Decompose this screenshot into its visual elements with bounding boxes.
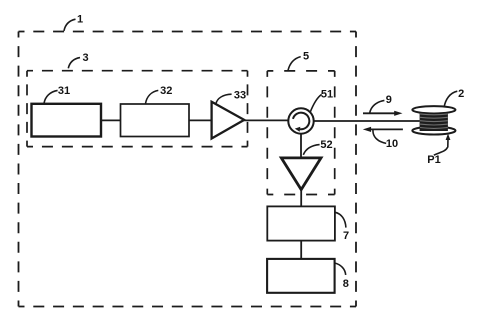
svg-text:31: 31	[58, 85, 70, 97]
svg-text:7: 7	[343, 230, 349, 242]
svg-text:51: 51	[321, 89, 333, 101]
svg-text:2: 2	[458, 88, 464, 100]
svg-text:P1: P1	[427, 154, 440, 166]
svg-text:10: 10	[386, 138, 398, 150]
svg-text:52: 52	[320, 139, 332, 151]
svg-text:3: 3	[82, 52, 88, 64]
svg-text:33: 33	[234, 90, 246, 102]
svg-text:32: 32	[160, 85, 172, 97]
svg-text:1: 1	[77, 14, 83, 26]
svg-text:8: 8	[343, 278, 349, 290]
svg-text:9: 9	[386, 94, 392, 106]
svg-text:5: 5	[303, 51, 309, 63]
